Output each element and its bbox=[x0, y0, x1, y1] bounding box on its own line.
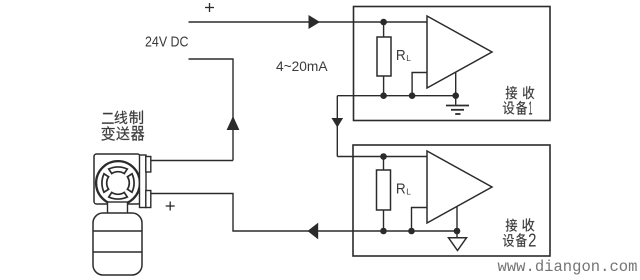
transmitter terminal strip bbox=[140, 155, 147, 208]
wire: top node to resistor RL (box2) bbox=[383, 157, 385, 171]
wire: op-amp U1 output/bottom to rail bbox=[455, 73, 457, 96]
label: transmitter 二线制 (line 1) bbox=[102, 113, 114, 124]
wire: op-amp U1 inverting input step bbox=[412, 73, 427, 96]
wire: op-amp U2 inverting input step bbox=[412, 208, 428, 232]
op-amp U2 triangle bbox=[427, 151, 492, 223]
receiver device 1 box bbox=[354, 7, 551, 121]
node: transmitter output + polarity mark bbox=[166, 202, 175, 211]
transmitter neck bbox=[108, 202, 128, 214]
wire: resistor RL bottom to rail (box2) bbox=[383, 210, 385, 231]
current direction arrow (up) on return wire bbox=[227, 116, 240, 130]
svg-text:L: L bbox=[406, 54, 411, 63]
resistor RL (box2) bbox=[377, 170, 391, 210]
junction dots (box1) bbox=[380, 19, 459, 99]
wire: drop from box1 rail down to receiver 2 input bbox=[336, 96, 338, 157]
transmitter head outer circle bbox=[96, 161, 140, 205]
resistor RL (box1) bbox=[377, 37, 391, 76]
current direction arrow (right) on +24V wire bbox=[309, 15, 321, 29]
wire: +24V supply line to receiver 1 (op-amp U1 + input) bbox=[189, 21, 428, 23]
wire: op-amp U2 output/bottom to rail bbox=[456, 207, 458, 232]
op-amp U1 triangle bbox=[427, 16, 492, 88]
svg-text:1: 1 bbox=[528, 98, 532, 118]
wire: transmitter + terminal to 24V return bbox=[151, 160, 233, 162]
capsule divider line 1 bbox=[93, 230, 142, 232]
label: 设备2 (box2) bbox=[503, 234, 514, 247]
terminal tab (bottom, - terminal) bbox=[146, 191, 151, 208]
current direction arrow (left) on return rail bbox=[308, 223, 319, 240]
wire: transmitter - terminal down to receiver 2 return rail bbox=[151, 194, 457, 232]
node: 24V DC positive terminal "+" bbox=[205, 3, 214, 12]
ground symbol (box2, open triangle type) bbox=[449, 231, 467, 251]
capsule divider line 2 bbox=[93, 251, 142, 253]
svg-text:4~20mA: 4~20mA bbox=[276, 59, 328, 74]
svg-text:R: R bbox=[396, 47, 406, 64]
label: 设备1 (box1) bbox=[503, 101, 514, 114]
ground symbol (box1, bar type) bbox=[446, 96, 469, 114]
current direction arrow (down) on drop wire bbox=[332, 118, 344, 128]
label: transmitter 变送器 (line 2) bbox=[101, 126, 115, 140]
wire: resistor RL bottom to rail (box1) bbox=[383, 76, 385, 96]
svg-text:2: 2 bbox=[528, 231, 536, 251]
transmitter housing (two-wire transmitter) bbox=[94, 154, 140, 204]
wire: into receiver 2 (op-amp U2 + input) bbox=[337, 156, 427, 158]
transmitter wheel spokes (4 annular segments) bbox=[109, 167, 128, 174]
receiver device 2 box bbox=[353, 145, 550, 256]
wire: 24V DC negative return, down to transmitter + terminal bbox=[189, 59, 234, 161]
svg-text:L: L bbox=[406, 188, 411, 197]
svg-text:www.diangon.com: www.diangon.com bbox=[498, 258, 638, 276]
terminal tab (top, + terminal) bbox=[146, 157, 151, 173]
wire: top node to resistor RL (box1) bbox=[383, 22, 385, 37]
svg-text:R: R bbox=[396, 181, 406, 198]
label: 接收 (box2) bbox=[506, 219, 517, 232]
label: 接收 (box1) bbox=[506, 86, 517, 100]
svg-text:24V DC: 24V DC bbox=[145, 35, 189, 51]
junction dots (box2) bbox=[380, 153, 460, 234]
transmitter body capsule bbox=[93, 213, 142, 275]
wire: box1 bottom rail (extends out of box to the left) bbox=[337, 95, 455, 97]
